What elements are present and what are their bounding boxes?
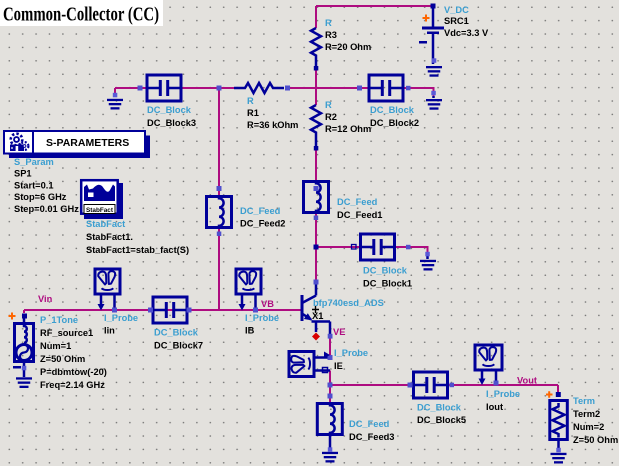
- svg-text:IB: IB: [245, 326, 255, 336]
- svg-text:R=12 Ohm: R=12 Ohm: [325, 124, 371, 134]
- svg-text:I_Probe: I_Probe: [245, 313, 279, 323]
- svg-text:Num=1: Num=1: [40, 341, 71, 351]
- svg-text:R3: R3: [325, 30, 337, 40]
- svg-text:P_1Tone: P_1Tone: [40, 315, 78, 325]
- svg-text:DC_Feed: DC_Feed: [240, 206, 281, 216]
- svg-text:Start=0.1: Start=0.1: [14, 181, 54, 191]
- svg-text:R: R: [247, 96, 254, 106]
- svg-text:Iin: Iin: [104, 326, 115, 336]
- svg-text:Vout: Vout: [517, 376, 537, 386]
- svg-text:Term2: Term2: [573, 409, 600, 419]
- svg-text:R=36 kOhm: R=36 kOhm: [247, 120, 298, 130]
- svg-text:X1: X1: [312, 311, 323, 321]
- svg-text:StabFact: StabFact: [86, 207, 114, 214]
- svg-text:Step=0.01 GHz: Step=0.01 GHz: [14, 204, 79, 214]
- svg-text:SP1: SP1: [14, 169, 32, 179]
- svg-text:Term: Term: [573, 396, 595, 406]
- svg-text:Freq=2.14 GHz: Freq=2.14 GHz: [40, 380, 105, 390]
- svg-text:R=20 Ohm: R=20 Ohm: [325, 42, 371, 52]
- svg-text:StabFact: StabFact: [86, 219, 125, 229]
- svg-text:DC_Block2: DC_Block2: [370, 118, 419, 128]
- svg-text:Z=50 Ohm: Z=50 Ohm: [573, 435, 618, 445]
- svg-text:DC_Block: DC_Block: [154, 328, 199, 338]
- svg-text:DC_Block5: DC_Block5: [417, 415, 466, 425]
- svg-text:Iout: Iout: [486, 402, 503, 412]
- svg-text:I_Probe: I_Probe: [486, 389, 520, 399]
- svg-text:DC_Block: DC_Block: [417, 403, 462, 413]
- svg-text:DC_Block3: DC_Block3: [147, 118, 196, 128]
- svg-text:DC_Feed3: DC_Feed3: [349, 432, 394, 442]
- svg-text:R: R: [325, 100, 332, 110]
- svg-text:DC_Feed2: DC_Feed2: [240, 219, 285, 229]
- svg-text:S-PARAMETERS: S-PARAMETERS: [46, 137, 129, 149]
- svg-text:I_Probe: I_Probe: [334, 348, 368, 358]
- svg-text:Num=2: Num=2: [573, 422, 604, 432]
- svg-text:StabFact1=stab_fact(S): StabFact1=stab_fact(S): [86, 245, 189, 255]
- svg-text:bfp740esd_ADS: bfp740esd_ADS: [313, 298, 384, 308]
- svg-text:V_DC: V_DC: [444, 5, 469, 15]
- svg-text:RF_source1: RF_source1: [40, 328, 93, 338]
- svg-text:DC_Block1: DC_Block1: [363, 279, 412, 289]
- svg-text:DC_Block: DC_Block: [363, 266, 408, 276]
- svg-text:StabFact1.: StabFact1.: [86, 232, 133, 242]
- svg-text:Vin: Vin: [38, 294, 53, 304]
- svg-text:SRC1: SRC1: [444, 16, 469, 26]
- svg-text:Z=50 Ohm: Z=50 Ohm: [40, 354, 85, 364]
- svg-text:DC_Feed: DC_Feed: [349, 419, 390, 429]
- svg-text:P=dbmtow(-20): P=dbmtow(-20): [40, 367, 107, 377]
- svg-text:R1: R1: [247, 108, 259, 118]
- svg-text:Common-Collector (CC): Common-Collector (CC): [3, 4, 159, 26]
- svg-text:DC_Block7: DC_Block7: [154, 341, 203, 351]
- svg-text:I_Probe: I_Probe: [104, 313, 138, 323]
- svg-text:Vdc=3.3 V: Vdc=3.3 V: [444, 28, 489, 38]
- svg-text:DC_Block: DC_Block: [147, 105, 192, 115]
- svg-text:DC_Block: DC_Block: [370, 105, 415, 115]
- svg-text:VB: VB: [261, 299, 274, 309]
- svg-text:VE: VE: [333, 327, 345, 337]
- svg-text:DC_Feed1: DC_Feed1: [337, 210, 382, 220]
- svg-text:S_Param: S_Param: [14, 157, 54, 167]
- svg-text:IE: IE: [334, 361, 343, 371]
- svg-text:DC_Feed: DC_Feed: [337, 197, 378, 207]
- svg-text:R2: R2: [325, 112, 337, 122]
- svg-text:Stop=6 GHz: Stop=6 GHz: [14, 192, 67, 202]
- svg-text:R: R: [325, 18, 332, 28]
